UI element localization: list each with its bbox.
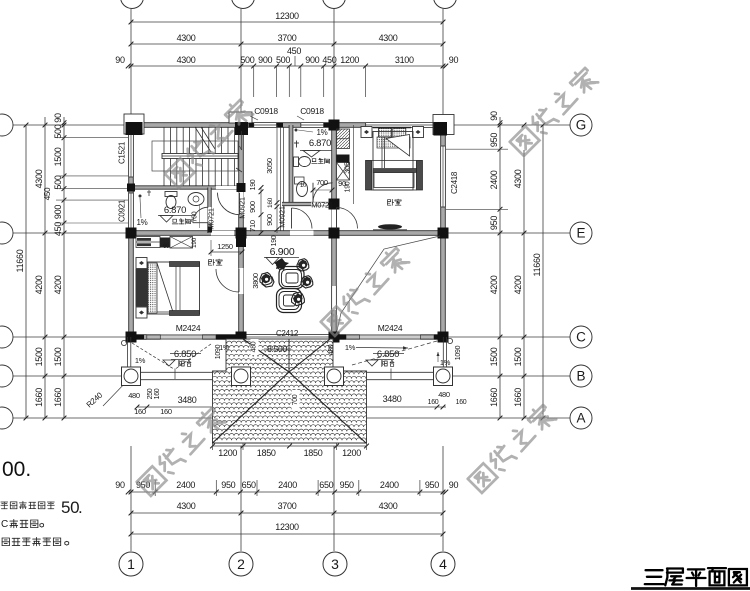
svg-text:4300: 4300 xyxy=(379,501,398,511)
svg-text:500: 500 xyxy=(276,55,290,65)
svg-text:1%: 1% xyxy=(317,128,328,137)
svg-text:12300: 12300 xyxy=(275,11,299,21)
svg-text:650: 650 xyxy=(319,480,333,490)
svg-text:1%: 1% xyxy=(219,345,229,352)
svg-text:1200: 1200 xyxy=(342,448,361,458)
svg-text:G: G xyxy=(576,118,587,133)
svg-text:90: 90 xyxy=(489,111,499,121)
svg-text:950: 950 xyxy=(340,480,354,490)
svg-text:1850: 1850 xyxy=(257,448,276,458)
svg-text:A: A xyxy=(576,411,585,426)
svg-text:2400: 2400 xyxy=(176,480,195,490)
svg-text:11660: 11660 xyxy=(15,249,25,272)
svg-text:160: 160 xyxy=(456,399,467,406)
svg-text:4200: 4200 xyxy=(53,275,63,294)
svg-text:500: 500 xyxy=(53,175,63,189)
svg-text:190: 190 xyxy=(250,179,257,190)
svg-text:1500: 1500 xyxy=(53,147,63,166)
svg-text:6.870: 6.870 xyxy=(164,205,186,216)
svg-text:650: 650 xyxy=(242,480,256,490)
svg-text:710: 710 xyxy=(248,220,257,232)
svg-text:3: 3 xyxy=(331,556,339,572)
svg-text:1200: 1200 xyxy=(218,448,237,458)
svg-text:3050: 3050 xyxy=(343,158,352,174)
svg-text:90: 90 xyxy=(115,55,125,65)
svg-text:M0921: M0921 xyxy=(278,206,287,228)
svg-text:500: 500 xyxy=(240,55,254,65)
svg-text:E: E xyxy=(576,226,585,241)
svg-text:C0918: C0918 xyxy=(254,106,278,116)
svg-text:6.850: 6.850 xyxy=(174,349,196,360)
svg-text:3700: 3700 xyxy=(278,33,297,43)
svg-text:160: 160 xyxy=(267,197,274,208)
svg-text:1090: 1090 xyxy=(455,345,462,360)
svg-text:900: 900 xyxy=(265,214,274,226)
svg-text:160: 160 xyxy=(154,388,161,399)
svg-text:900: 900 xyxy=(305,55,319,65)
svg-text:700: 700 xyxy=(316,178,328,187)
svg-text:C: C xyxy=(576,330,586,345)
svg-text:M0921: M0921 xyxy=(238,197,247,219)
svg-text:4300: 4300 xyxy=(177,33,196,43)
svg-text:3480: 3480 xyxy=(383,394,402,404)
svg-text:450: 450 xyxy=(43,187,52,200)
svg-text:M0721: M0721 xyxy=(311,201,333,210)
svg-text:C2418: C2418 xyxy=(450,171,459,194)
svg-text:1660: 1660 xyxy=(513,388,523,407)
svg-text:1500: 1500 xyxy=(34,347,44,366)
svg-text:3480: 3480 xyxy=(178,395,197,405)
svg-text:1: 1 xyxy=(127,556,135,572)
svg-text:160: 160 xyxy=(428,399,439,406)
svg-text:6.870: 6.870 xyxy=(309,138,331,149)
svg-text:480: 480 xyxy=(328,344,335,355)
svg-text:C1521: C1521 xyxy=(118,141,127,164)
svg-text:4300: 4300 xyxy=(513,169,523,188)
svg-text:M0721: M0721 xyxy=(207,208,216,230)
svg-text:4300: 4300 xyxy=(177,501,196,511)
svg-text:4: 4 xyxy=(439,556,447,572)
svg-text:2400: 2400 xyxy=(489,170,499,189)
svg-text:4200: 4200 xyxy=(34,275,44,294)
svg-text:450: 450 xyxy=(322,55,336,65)
svg-text:10: 10 xyxy=(300,183,307,189)
svg-text:1%: 1% xyxy=(345,343,356,352)
svg-text:950: 950 xyxy=(425,480,439,490)
svg-text:900: 900 xyxy=(248,201,257,213)
svg-text:160: 160 xyxy=(160,407,172,416)
svg-text:1%: 1% xyxy=(440,358,451,367)
svg-text:450: 450 xyxy=(53,222,63,236)
svg-text:1660: 1660 xyxy=(53,388,63,407)
svg-text:950: 950 xyxy=(489,133,499,147)
svg-text:2400: 2400 xyxy=(380,480,399,490)
svg-text:M2424: M2424 xyxy=(176,323,201,333)
svg-text:480: 480 xyxy=(438,390,450,399)
svg-text:500: 500 xyxy=(53,124,63,138)
svg-text:190: 190 xyxy=(345,181,352,192)
svg-text:M2424: M2424 xyxy=(378,323,403,333)
svg-text:1%: 1% xyxy=(135,356,146,365)
svg-text:1850: 1850 xyxy=(304,448,323,458)
svg-text:1660: 1660 xyxy=(34,388,44,407)
svg-text:450: 450 xyxy=(287,46,301,56)
svg-text:700: 700 xyxy=(192,211,199,222)
svg-text:3800: 3800 xyxy=(251,273,260,289)
svg-text:6.900: 6.900 xyxy=(270,246,295,258)
svg-text:190: 190 xyxy=(271,235,278,246)
svg-text:190: 190 xyxy=(191,237,198,248)
svg-text:6.850: 6.850 xyxy=(377,349,399,360)
svg-text:4300: 4300 xyxy=(379,33,398,43)
svg-text:900: 900 xyxy=(53,205,63,219)
svg-text:.: . xyxy=(78,498,82,517)
svg-text:3700: 3700 xyxy=(278,501,297,511)
svg-text:3100: 3100 xyxy=(395,55,414,65)
svg-text:900: 900 xyxy=(258,55,272,65)
svg-text:4300: 4300 xyxy=(177,55,196,65)
svg-text:4200: 4200 xyxy=(513,275,523,294)
svg-text:1500: 1500 xyxy=(513,347,523,366)
svg-text:4300: 4300 xyxy=(34,169,44,188)
svg-text:50: 50 xyxy=(61,498,79,517)
svg-text:480: 480 xyxy=(251,341,258,352)
svg-text:1200: 1200 xyxy=(340,55,359,65)
svg-text:12300: 12300 xyxy=(275,522,299,532)
svg-text:90: 90 xyxy=(449,55,459,65)
svg-text:3050: 3050 xyxy=(265,158,274,174)
svg-text:60: 60 xyxy=(163,244,170,250)
svg-text:1500: 1500 xyxy=(53,347,63,366)
svg-text:C0921: C0921 xyxy=(118,199,127,222)
svg-text:C0918: C0918 xyxy=(300,106,324,116)
svg-text:1660: 1660 xyxy=(489,388,499,407)
svg-text:1250: 1250 xyxy=(217,242,233,251)
svg-text:250: 250 xyxy=(147,388,154,399)
svg-text:1%: 1% xyxy=(137,218,148,227)
svg-text:950: 950 xyxy=(221,480,235,490)
svg-text:160: 160 xyxy=(134,407,146,416)
svg-text:1500: 1500 xyxy=(489,347,499,366)
svg-text:2400: 2400 xyxy=(278,480,297,490)
svg-text:480: 480 xyxy=(128,391,140,400)
svg-text:950: 950 xyxy=(489,216,499,230)
svg-text:4200: 4200 xyxy=(489,275,499,294)
svg-text:90: 90 xyxy=(115,480,125,490)
svg-text:90: 90 xyxy=(53,113,63,123)
svg-text:700: 700 xyxy=(292,394,299,405)
svg-text:C: C xyxy=(1,519,8,530)
svg-text:00.: 00. xyxy=(2,458,31,481)
svg-text:B: B xyxy=(576,369,585,384)
svg-text:90: 90 xyxy=(449,480,459,490)
svg-text:2: 2 xyxy=(237,556,245,572)
svg-text:11660: 11660 xyxy=(532,253,542,276)
svg-text:C2412: C2412 xyxy=(276,329,299,338)
